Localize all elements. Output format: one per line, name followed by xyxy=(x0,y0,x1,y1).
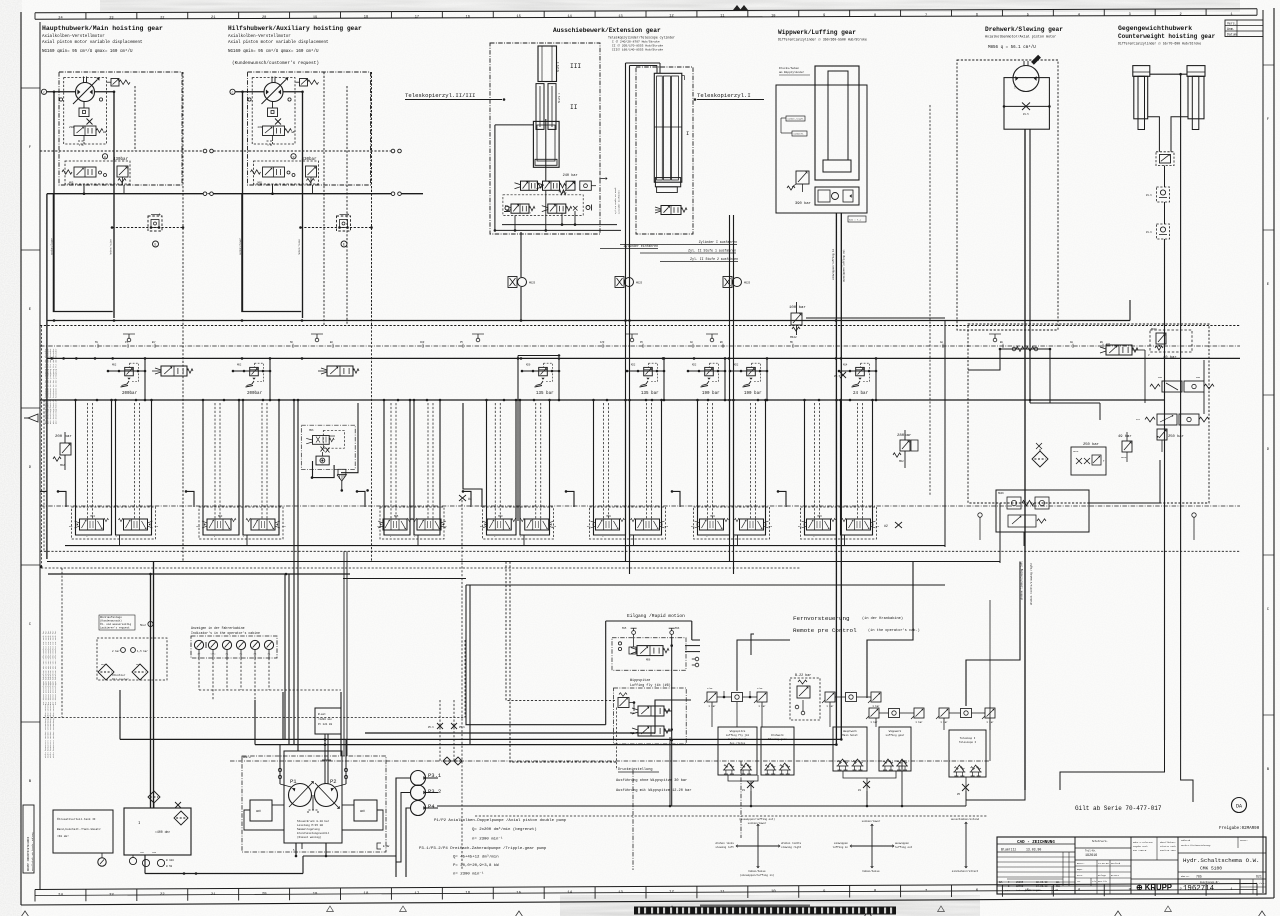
svg-text:1 bar: 1 bar xyxy=(872,705,880,708)
main hoist motor M1 variable displacement motor xyxy=(73,77,100,105)
left long return line xyxy=(46,194,48,559)
directional valve bank M30 xyxy=(691,399,773,546)
main hoist motor M1 brake valve dashed box xyxy=(65,161,130,184)
Eilgang right heavy riser xyxy=(670,637,673,806)
svg-text:2 bar: 2 bar xyxy=(112,649,120,653)
left margin note block lower xyxy=(42,630,57,705)
svg-text:≈60 dm³: ≈60 dm³ xyxy=(57,834,69,838)
svg-text:M09: M09 xyxy=(630,732,635,735)
bus line P main xyxy=(40,399,1165,402)
left margin arrow mark xyxy=(24,414,38,422)
svg-text:(Diesel wennig): (Diesel wennig) xyxy=(297,835,322,839)
bypass gauge 5bar xyxy=(140,621,153,627)
svg-text:Hilfshubwerk/Auxiliary hoistin: Hilfshubwerk/Auxiliary hoisting gear xyxy=(228,25,362,32)
svg-text:9: 9 xyxy=(823,14,825,18)
svg-text:M616: M616 xyxy=(1121,456,1127,459)
svg-text:Wippspitze: Wippspitze xyxy=(630,678,650,683)
joystick cross luffing xyxy=(832,819,912,873)
directional valve bank M30 xyxy=(480,399,557,546)
svg-text:senken/lower: senken/lower xyxy=(748,821,767,825)
counterweight rod side lines xyxy=(1148,117,1188,152)
extension valve row 240 bar xyxy=(515,173,608,195)
svg-text:250 bar: 250 bar xyxy=(1083,442,1099,447)
aux hoist motor M2 control dashed box xyxy=(252,78,295,144)
relief valve M62 200bar xyxy=(232,357,272,401)
svg-text:Luffing fly jib: Luffing fly jib xyxy=(726,733,750,737)
relief valve M20 135 bar xyxy=(521,357,561,401)
rotary coupling M625 left xyxy=(508,277,536,288)
directional valve bank M63 xyxy=(69,399,159,546)
cabin gauges xyxy=(194,640,273,658)
svg-text:M62: M62 xyxy=(237,364,242,367)
svg-text:M876: M876 xyxy=(1073,450,1079,453)
telescope cylinder I xyxy=(654,73,689,192)
pilot return dashed long xyxy=(462,500,741,870)
svg-text:29035: 29035 xyxy=(1016,881,1024,884)
aux hoist motor M2 brake control valve xyxy=(251,167,285,185)
svg-text:C: C xyxy=(43,91,45,94)
bus line T1 top xyxy=(47,319,1130,322)
title block table xyxy=(997,837,1266,894)
telescope stage 3 cylinder xyxy=(538,46,557,82)
pre-tension valve #5.5 xyxy=(834,372,846,378)
svg-text:KRUPP INDUSTRIETECHNIK: KRUPP INDUSTRIETECHNIK xyxy=(27,836,30,871)
gauge drop lines xyxy=(199,658,341,756)
tank bottom gauges xyxy=(129,851,174,868)
svg-text:A5#: A5# xyxy=(420,341,425,344)
svg-text:P3.1/P3.2/P4 Dreifach-Zahnradp: P3.1/P3.2/P4 Dreifach-Zahnradpumpe /Trip… xyxy=(419,846,547,851)
pump note text xyxy=(297,819,330,839)
svg-text:M08: M08 xyxy=(630,712,635,715)
svg-text:A.Schiebwerk: A.Schiebwerk xyxy=(728,737,747,741)
cylinder I pilot valve xyxy=(655,206,687,215)
svg-text:II: II xyxy=(570,104,578,111)
directional valve bank M36 xyxy=(798,399,880,546)
49 bar relief xyxy=(1118,432,1132,462)
svg-text:T: T xyxy=(1014,86,1016,90)
svg-text:DA: DA xyxy=(999,881,1003,884)
svg-text:Oberflächen-: Oberflächen- xyxy=(1160,841,1176,844)
Eilgang rapid motion label xyxy=(627,613,685,619)
svg-text:III∅ 160/140-8553 Hub/Stroke: III∅ 160/140-8553 Hub/Stroke xyxy=(612,48,663,52)
40 bar relief M616 xyxy=(1150,328,1192,360)
aux hoist motor M2 brake release pressure 430bar xyxy=(302,157,318,162)
unload valve M06 aux xyxy=(318,366,359,376)
svg-text:390 bar: 390 bar xyxy=(795,201,811,206)
label Teleskopierzyl I xyxy=(694,92,764,101)
svg-text:Kolbenfl.: Kolbenfl. xyxy=(794,133,805,136)
svg-text:Kolben-ringfl.: Kolben-ringfl. xyxy=(788,118,805,121)
pump housing box xyxy=(284,751,342,843)
main hoist motor M1 feedback linkage xyxy=(78,136,84,146)
svg-text:200 bar: 200 bar xyxy=(55,434,72,439)
aux hoist pilot dashed cross line xyxy=(249,149,401,153)
svg-text:100 bar: 100 bar xyxy=(789,305,806,310)
unload valve M06 main xyxy=(152,366,193,376)
svg-text:slewing right: slewing right xyxy=(781,845,802,849)
Rem P4 tag xyxy=(848,216,866,222)
svg-text:12: 12 xyxy=(669,15,673,19)
pilot group C reliefs xyxy=(936,708,995,724)
cluster D center feed xyxy=(517,354,561,521)
svg-text:DIN 7168-m: DIN 7168-m xyxy=(1133,849,1147,852)
counterweight cap line xyxy=(1150,73,1187,76)
svg-text:P4: P4 xyxy=(428,803,435,810)
svg-text:Counterweight hoisting gear: Counterweight hoisting gear xyxy=(1118,33,1216,40)
rotary coupling M625 right xyxy=(723,277,751,288)
svg-text:8: 8 xyxy=(874,14,876,18)
svg-text:(Kundenwunsch/customer's reque: (Kundenwunsch/customer's request) xyxy=(232,61,319,66)
svg-text:Indicator's in the operator's: Indicator's in the operator's cabine xyxy=(191,631,260,635)
svg-text:18: 18 xyxy=(364,892,369,896)
svg-text:Ø-mot: Ø-mot xyxy=(318,712,326,716)
svg-text:luffing out: luffing out xyxy=(895,845,913,849)
main extra dashed riser xyxy=(134,86,136,151)
joystick cross slewing xyxy=(715,817,801,877)
svg-text:M836: M836 xyxy=(998,492,1004,495)
svg-text:Bl.1/Ers.: Bl.1/Ers. xyxy=(1255,882,1266,885)
svg-text:auswippen/luffing out: auswippen/luffing out xyxy=(842,249,846,282)
svg-text:Drehwerk: Drehwerk xyxy=(771,733,784,737)
svg-text:M625: M625 xyxy=(529,282,536,285)
coupler diamonds right xyxy=(443,757,462,765)
stage1 piston rod xyxy=(545,119,547,181)
svg-text:4: 4 xyxy=(1078,13,1080,17)
pilot dash-dot header xyxy=(230,756,990,761)
main hoist motor M1 orifice xyxy=(87,119,93,125)
svg-text:e5: e5 xyxy=(1055,889,1059,892)
svg-text:WP: WP xyxy=(292,131,296,134)
svg-text:P= 121 kW: P= 121 kW xyxy=(318,722,332,726)
telescope stage 2 rod tubes xyxy=(536,84,556,130)
pilot mark x4 xyxy=(459,495,472,501)
luffing small note xyxy=(779,66,810,75)
Wippspitze connections xyxy=(634,703,672,732)
aux hoist motor M2 shuttle ports xyxy=(287,171,295,177)
left margin note block third xyxy=(44,703,55,758)
gear pump P3.1 xyxy=(411,771,442,786)
gear pump connections xyxy=(396,778,438,877)
svg-text:E: E xyxy=(155,243,157,247)
Wippspitze valve M09 xyxy=(630,726,670,736)
svg-text:5: 5 xyxy=(1027,13,1029,17)
right inner frame line xyxy=(1262,10,1264,893)
gegengewicht pilot marks xyxy=(428,700,465,761)
vent risers on interface xyxy=(123,334,1001,342)
svg-text:Zyl. II Stufe 1 ausfahren: Zyl. II Stufe 1 ausfahren xyxy=(688,249,736,253)
svg-text:(Kundenwunsch): (Kundenwunsch) xyxy=(100,619,122,623)
svg-text:#71: #71 xyxy=(1106,343,1111,346)
svg-text:#1.5: #1.5 xyxy=(1023,113,1029,116)
svg-text:Fernvorsteuerung: Fernvorsteuerung xyxy=(793,615,850,622)
svg-text:DA: DA xyxy=(1236,804,1242,810)
cooler bypass check valves xyxy=(112,648,148,653)
svg-text:M625: M625 xyxy=(744,282,751,285)
main hoist motor M1 brake release pressure 430bar xyxy=(113,157,129,162)
svg-text:230: 230 xyxy=(69,126,74,129)
aux hoist motor M2 pilot line to E xyxy=(299,226,373,229)
main hoist motor M1 port lines xyxy=(47,91,115,94)
main hoist motor M1 drain ports xyxy=(59,98,102,101)
pilot group B reliefs row2 xyxy=(866,708,924,724)
svg-text:Haupthubwerk/Main hoisting gea: Haupthubwerk/Main hoisting gear xyxy=(42,25,163,32)
bottom registration triangles xyxy=(21,906,1266,916)
DA stamp xyxy=(1232,798,1247,813)
aux hoist motor M2 lower connections xyxy=(271,184,312,195)
svg-text:Eilgang /Rapid motion: Eilgang /Rapid motion xyxy=(627,613,685,619)
aux hoist motor M2 port node C xyxy=(230,89,235,94)
svg-text:Gepr.: Gepr. xyxy=(1077,868,1084,871)
relief valve M14 24 bar xyxy=(838,357,878,401)
svg-text:Teil-Nr.: Teil-Nr. xyxy=(1085,850,1096,853)
damping symbol on slew line xyxy=(999,347,1052,352)
bus line T2 xyxy=(47,357,1240,360)
svg-text:Lackierer's request: Lackierer's request xyxy=(100,626,130,630)
pilot group A reliefs xyxy=(704,687,767,708)
svg-text:Herford: Herford xyxy=(1111,862,1121,865)
main hoist motor M1 case drain dashed riser xyxy=(182,72,184,562)
svg-text:14: 14 xyxy=(567,15,571,19)
svg-text:GRÖ: GRÖ xyxy=(256,809,261,813)
luffing gear outer box xyxy=(776,85,867,213)
svg-text:Anlage: Anlage xyxy=(1098,874,1107,877)
svg-text:240 bar: 240 bar xyxy=(563,173,578,178)
aux extra dashed risers xyxy=(324,72,372,562)
svg-text:230: 230 xyxy=(258,126,263,129)
svg-text:DIN/ISO 1302: DIN/ISO 1302 xyxy=(1160,849,1176,852)
joystick axis telescope xyxy=(951,817,979,873)
olzusatz tank note box xyxy=(53,810,113,853)
svg-text:M15: M15 xyxy=(622,627,627,630)
counterweight drop lines xyxy=(1165,74,1181,740)
main hoist motor M1 line labels xyxy=(51,237,113,255)
svg-text:13: 13 xyxy=(618,15,622,19)
aux hoist motor M2 case drain dashed riser xyxy=(371,72,373,326)
anti-cavitation valve M16 xyxy=(1100,343,1150,403)
svg-text:M30: M30 xyxy=(498,515,503,518)
svg-text:Ausführung mit Wippspitze 12-2: Ausführung mit Wippspitze 12-20 bar xyxy=(616,788,691,793)
svg-text:Öl- und wasserseitig: Öl- und wasserseitig xyxy=(100,622,132,626)
svg-text:Jm.: Jm. xyxy=(1077,880,1081,883)
svg-text:18: 18 xyxy=(364,16,368,20)
250 bar pilot block M876 xyxy=(1071,442,1106,475)
interface dash-dot line with port labels xyxy=(40,341,1240,348)
svg-text:192616: 192616 xyxy=(1085,854,1097,858)
svg-text:I/50: I/50 xyxy=(757,687,763,690)
pilot mark x2 xyxy=(884,522,902,528)
svg-text:Luffing fly jib (#6): Luffing fly jib (#6) xyxy=(630,683,671,688)
svg-text:CMK 5100: CMK 5100 xyxy=(1200,866,1222,872)
counterweight cylinder left xyxy=(1133,66,1150,130)
svg-text:P1/P2 Axialkolben-Doppelpumpe: P1/P2 Axialkolben-Doppelpumpe /Axial pis… xyxy=(434,818,567,823)
da revision rows xyxy=(999,879,1063,892)
svg-text:D: D xyxy=(293,156,295,159)
gear pump P4 xyxy=(411,801,436,816)
main hoist motor M1 stroking cylinder xyxy=(79,102,89,117)
svg-text:Stufe 2: Stufe 2 xyxy=(557,61,560,72)
svg-text:Vers.: Vers. xyxy=(1227,22,1237,26)
pump unit dash-dot box xyxy=(242,756,386,852)
Druckeinstellung note xyxy=(616,767,691,793)
svg-text:E: E xyxy=(343,243,345,247)
svg-text:T/O: T/O xyxy=(1092,880,1097,883)
svg-text:Wippwerk: Wippwerk xyxy=(889,729,902,733)
svg-text:3H5: 3H5 xyxy=(1196,376,1201,379)
svg-text:#1: #1 xyxy=(742,789,746,792)
svg-text:Aus-/teles: Aus-/teles xyxy=(730,741,746,745)
svg-text:02.03.90: 02.03.90 xyxy=(1036,881,1048,884)
svg-text:Axialkolben-Verstellmotor: Axialkolben-Verstellmotor xyxy=(42,34,105,39)
telescopic cylinder I dash-dot enclosure xyxy=(636,67,693,234)
svg-text:1 bar: 1 bar xyxy=(915,721,923,724)
aux hoist motor M2 variable displacement motor xyxy=(262,77,289,105)
main hoist motor M1 control dashed box xyxy=(64,78,107,144)
svg-text:19: 19 xyxy=(313,16,317,20)
svg-text:785: 785 xyxy=(1196,875,1202,879)
GRO box left xyxy=(250,800,272,821)
svg-text:Wippwerk/Luffing gear: Wippwerk/Luffing gear xyxy=(778,29,856,36)
svg-text:Luffing gear: Luffing gear xyxy=(886,733,905,737)
lower solid return bus xyxy=(65,545,945,547)
svg-text:13.03.90: 13.03.90 xyxy=(1098,862,1109,865)
left margin note block upper xyxy=(44,348,57,424)
svg-text:17: 17 xyxy=(414,892,419,896)
aux hoist motor M2 drain ports xyxy=(248,98,291,101)
svg-text:Blumritz: Blumritz xyxy=(1001,848,1016,852)
svg-text:⊕ KRUPP: ⊕ KRUPP xyxy=(1136,883,1172,892)
slewing line down xyxy=(1020,129,1034,790)
svg-text:P1: P1 xyxy=(290,778,297,785)
svg-text:20: 20 xyxy=(262,16,266,20)
rotary coupling M625 mid xyxy=(615,277,643,288)
svg-text:#1.6: #1.6 xyxy=(1146,194,1152,197)
svg-text:#ØR-⊔: #ØR-⊔ xyxy=(243,756,251,759)
extension lower valve row xyxy=(504,204,592,215)
stage markers III II xyxy=(557,61,581,111)
left return drop lines xyxy=(48,562,350,809)
extension lower valve dashed box xyxy=(503,195,583,216)
svg-text:WK1: WK1 xyxy=(101,663,106,666)
wipp lines elbow into pumps xyxy=(835,738,842,746)
svg-text:E-WW: E-WW xyxy=(383,845,390,848)
svg-text:M62: M62 xyxy=(899,460,904,463)
main hoist motor M1 enclosure dash-dot box xyxy=(59,72,182,185)
long return buses lower left xyxy=(40,562,1000,586)
svg-text:W 100: W 100 xyxy=(166,859,174,862)
dash-dot lower boundary xyxy=(40,505,1240,507)
pump spec text block xyxy=(419,818,567,877)
svg-text:Leistung P≈15 kW: Leistung P≈15 kW xyxy=(297,823,323,827)
svg-text:Ausführung ohne Wippspitze: Ausführung ohne Wippspitze 30 bar xyxy=(616,778,687,783)
top center fold mark xyxy=(733,5,748,10)
200 bar relief left margin xyxy=(53,432,72,470)
svg-text:Zylinder I ausfahren: Zylinder I ausfahren xyxy=(699,240,737,244)
main hoist motor M1 pilot valve xyxy=(69,126,107,136)
svg-text:CAD - ZEICHNUNG: CAD - ZEICHNUNG xyxy=(1017,841,1055,845)
svg-text:M16: M16 xyxy=(675,627,680,630)
svg-text:I ∅ 240/20-8707 Hub/Stroke: I ∅ 240/20-8707 Hub/Stroke xyxy=(612,40,660,44)
right dashed enclosure xyxy=(968,324,1209,503)
svg-text:II ∅ 205/170-8553 Hub/Stroke: II ∅ 205/170-8553 Hub/Stroke xyxy=(612,44,663,48)
svg-text:eco: eco xyxy=(1136,418,1141,421)
title Drehwerk xyxy=(985,26,1063,50)
svg-text:13.03.90: 13.03.90 xyxy=(1026,848,1041,852)
tank filters xyxy=(148,791,188,825)
Eilgang dash-dot box xyxy=(612,638,686,670)
svg-text:Freigabe:02MAR90: Freigabe:02MAR90 xyxy=(1219,826,1260,831)
right heavy connections xyxy=(968,349,1204,503)
svg-text:04.09.88: 04.09.88 xyxy=(1036,885,1048,888)
svg-text:Telescope I: Telescope I xyxy=(959,740,977,744)
svg-text:(auswippen/luffing out): (auswippen/luffing out) xyxy=(739,817,775,821)
svg-text:Teleskopierzyl.II/III: Teleskopierzyl.II/III xyxy=(405,92,476,99)
aux hoist motor M2 A-B work lines xyxy=(243,92,303,318)
svg-text:Abm.Nr.: Abm.Nr. xyxy=(1181,875,1190,878)
svg-text:Wippspitze: Wippspitze xyxy=(730,729,746,733)
main hoist motor M1 A-B work lines xyxy=(54,92,114,318)
directional valve bank M30 xyxy=(587,399,669,546)
lower dashed bus xyxy=(40,550,1240,552)
main hoist motor M1 shuttle valve E xyxy=(148,213,162,231)
svg-text:heben/heise: heben/heise xyxy=(748,869,766,873)
title Hilfshubwerk xyxy=(228,25,362,66)
left edge zone letters xyxy=(21,88,40,784)
svg-text:Teleskopierzyl.I: Teleskopierzyl.I xyxy=(697,92,751,99)
Eilgang vent M15 xyxy=(622,627,637,634)
svg-text:M05: M05 xyxy=(258,182,263,185)
svg-text:Datum: Datum xyxy=(1036,889,1043,892)
pilot station Hauptwerk xyxy=(833,727,867,771)
svg-text:Fur diese Unterlagen behalten: Fur diese Unterlagen behalten wir uns al… xyxy=(54,630,57,705)
svg-text:P= 20,0+20,9+3,8 kW: P= 20,0+20,9+3,8 kW xyxy=(453,863,499,868)
pump P1 xyxy=(289,778,314,807)
svg-text:Hauptwerk: Hauptwerk xyxy=(843,729,857,733)
svg-text:Anzeigen in der Fahrerkabine: Anzeigen in der Fahrerkabine xyxy=(191,626,245,630)
svg-text:B-22 bar: B-22 bar xyxy=(795,673,811,678)
main hoist motor M1 port node C xyxy=(41,89,46,94)
supply headers above pumps xyxy=(120,690,841,746)
left inner frame line xyxy=(39,22,41,890)
aux hoist motor M2 flushing valve with spring xyxy=(296,79,319,87)
svg-text:7: 7 xyxy=(925,14,927,18)
svg-text:Maßstab: Maßstab xyxy=(1181,839,1191,842)
svg-text:(in der Krankabine): (in der Krankabine) xyxy=(862,616,903,621)
gauge panel title xyxy=(191,626,260,635)
svg-text:drehen rechts/slewing right: drehen rechts/slewing right xyxy=(1029,563,1033,605)
aux hoist motor M2 brake relief valve xyxy=(306,166,317,185)
aux hoist motor M2 node E circle xyxy=(341,241,347,247)
telescopic cylinder II/III dash-dot enclosure xyxy=(490,43,600,234)
aux hoist motor M2 line labels xyxy=(239,237,301,255)
svg-text:Drehwerk/Slewing gear: Drehwerk/Slewing gear xyxy=(985,26,1063,33)
svg-text:1962714: 1962714 xyxy=(1183,885,1215,893)
svg-text:24 bar: 24 bar xyxy=(853,391,869,396)
svg-text:WP: WP xyxy=(103,131,107,134)
svg-text:11: 11 xyxy=(720,14,724,18)
svg-text:Datum: Datum xyxy=(1227,33,1237,37)
main hoist motor M1 node E circle xyxy=(153,241,159,247)
luffing control block xyxy=(815,187,859,205)
svg-text:M63: M63 xyxy=(91,515,96,518)
boost line corner right xyxy=(806,317,945,319)
gear pump P3.2 xyxy=(411,785,442,800)
svg-text:Stufe 1: Stufe 1 xyxy=(558,92,561,103)
relief valve M22 190 bar xyxy=(729,357,769,401)
svg-text:einwippen/luffing in: einwippen/luffing in xyxy=(831,248,835,280)
pump control arrow xyxy=(308,795,318,813)
svg-text:11: 11 xyxy=(720,890,725,894)
svg-text:Slewing gear: Slewing gear xyxy=(768,737,787,741)
